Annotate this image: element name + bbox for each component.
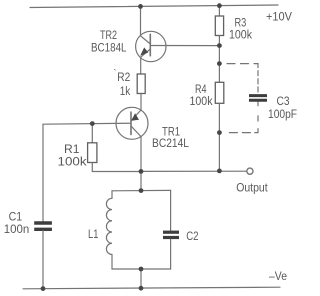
wire output line (141, 170, 247, 172)
svg-text:100k: 100k (229, 30, 252, 42)
wire C3 bottom node to output line (218, 133, 220, 171)
wire R1 bottom to output line (92, 163, 141, 172)
transistor Q TR2 (136, 31, 166, 61)
wire R3 bottom lead (218, 36, 220, 46)
svg-text:1k: 1k (120, 86, 131, 98)
transistor Q TR1 (116, 107, 148, 139)
wire R4 bottom lead (218, 103, 220, 132)
wire TR2 base line (150, 45, 219, 47)
wire C3 node to R4 (218, 64, 220, 83)
wire R2 to TR1 emitter (140, 94, 142, 111)
svg-text:100k: 100k (58, 157, 87, 169)
svg-text:C1: C1 (9, 212, 23, 224)
wire C2 bottom lead (170, 239, 172, 269)
wire tank top line (112, 189, 171, 191)
node C3 top junction (217, 61, 222, 66)
terminal output open circle (247, 168, 253, 174)
svg-text:BC214L: BC214L (152, 138, 190, 150)
wire top +10V rail (30, 5, 278, 8)
svg-text:R3: R3 (235, 18, 247, 30)
node collector output junction (139, 169, 144, 174)
node R1 top junction (90, 121, 95, 126)
wire TR2 emitter to R2 (140, 57, 142, 74)
svg-text:C3: C3 (277, 96, 290, 108)
svg-text:Output: Output (236, 183, 268, 195)
wire TR1 base line (43, 123, 131, 124)
node rail R3 top (217, 3, 222, 8)
svg-text:C2: C2 (186, 231, 198, 243)
wire C2 top lead (170, 190, 172, 230)
wire C3 dashed top (227, 64, 258, 94)
svg-text:TR2: TR2 (100, 30, 117, 42)
capacitor C1 (34, 223, 52, 229)
node tank to rail (139, 286, 144, 291)
wire left branch upper (to C1) (42, 124, 44, 221)
wire R3 top lead (218, 6, 220, 16)
svg-text:R4: R4 (195, 84, 207, 96)
svg-text:TR1: TR1 (162, 127, 180, 139)
wire bottom -Ve rail (23, 287, 280, 289)
wire collector node to tank top node (140, 171, 142, 190)
inductor L1 (106, 198, 112, 254)
svg-text:BC184L: BC184L (91, 42, 127, 54)
wire L1 bottom lead (111, 255, 113, 270)
svg-text:100n: 100n (4, 224, 30, 236)
wire C3 dashed bottom (229, 102, 258, 133)
node R3 bottom base junction (217, 43, 222, 48)
resistor R2 (137, 74, 145, 94)
svg-text:`: ` (114, 68, 117, 78)
node rail TR2 collector (138, 4, 143, 9)
resistor R3 (215, 16, 223, 36)
svg-text:–Ve: –Ve (269, 271, 287, 283)
resistor R4 (215, 82, 224, 103)
svg-text:L1: L1 (88, 229, 98, 241)
wire TR1 collector down (140, 137, 142, 172)
svg-text:R1: R1 (64, 144, 80, 156)
wire tank bottom line (112, 268, 171, 270)
svg-text:+10V: +10V (266, 11, 292, 23)
svg-text:100k: 100k (190, 96, 213, 108)
capacitor C3 (249, 96, 267, 101)
wire R3/R4 junction to C3 node (218, 46, 220, 64)
wire tank bottom node to -Ve rail (140, 269, 142, 288)
node R4 output junction (217, 169, 222, 174)
node tank bottom (139, 267, 144, 272)
wire R1 top lead (91, 124, 93, 143)
node C3 bottom junction (217, 130, 222, 135)
wire left branch lower (C1 to -Ve rail) (42, 231, 44, 289)
node left branch rail (41, 286, 46, 291)
svg-text:R2: R2 (117, 72, 130, 84)
resistor R1 (88, 143, 97, 163)
wire TR2 collector (140, 6, 142, 35)
capacitor C2 (163, 232, 179, 237)
svg-text:100pF: 100pF (268, 109, 297, 121)
node tank top (139, 188, 144, 193)
wire L1 top lead (111, 191, 113, 199)
